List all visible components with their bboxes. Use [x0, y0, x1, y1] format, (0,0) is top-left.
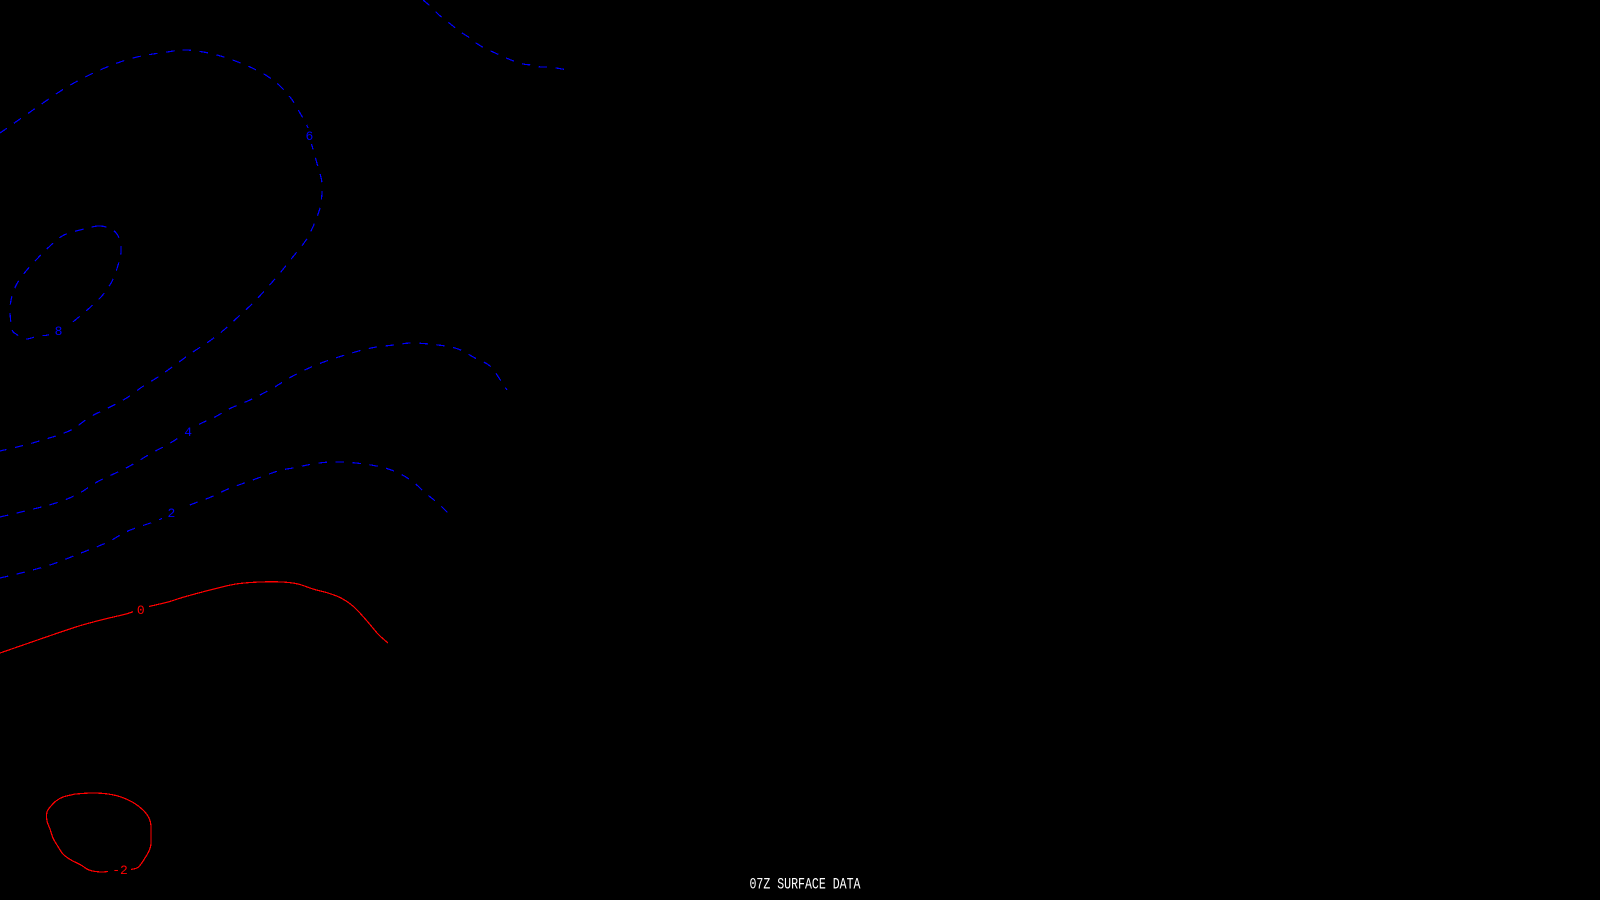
svg-text:07Z SURFACE DATA: 07Z SURFACE DATA: [750, 875, 862, 893]
isotherm contour 4 (blue dashed): [0, 343, 507, 517]
isotherm contour 8 (blue dashed closed loop): [10, 226, 121, 339]
label gap masks: [302, 128, 317, 144]
svg-text:4: 4: [184, 425, 192, 440]
svg-text:-2: -2: [112, 863, 128, 878]
svg-text:8: 8: [55, 324, 63, 339]
isotherm contour upper-right (blue dashed, unlabeled): [423, 0, 571, 70]
isotherm contour -2 (red solid closed loop): [47, 793, 152, 872]
isotherm contour 0 (red solid): [0, 582, 388, 653]
svg-text:6: 6: [305, 129, 313, 144]
isotherm contour 6 (blue dashed C-shape): [0, 50, 322, 451]
svg-text:0: 0: [137, 603, 145, 618]
isotherm contour 2 (blue dashed): [0, 462, 453, 578]
svg-text:2: 2: [167, 506, 175, 521]
